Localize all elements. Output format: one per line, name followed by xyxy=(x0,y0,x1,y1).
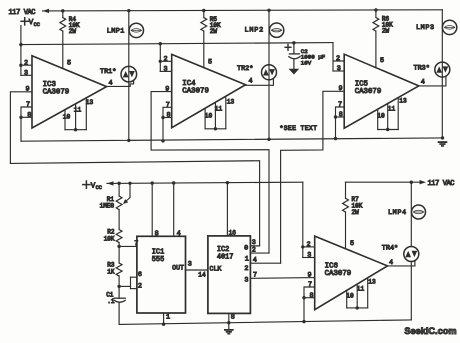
svg-text:2W: 2W xyxy=(382,28,390,35)
pin 10 IC6 xyxy=(346,293,354,300)
node IC5 pin8 xyxy=(334,115,337,118)
pin 9 IC5 xyxy=(338,85,342,93)
wire IC6 pins 7-8 xyxy=(304,287,315,322)
pin 8 IC2 xyxy=(231,313,235,321)
svg-text:13: 13 xyxy=(399,98,407,105)
svg-text:117 VAC: 117 VAC xyxy=(9,9,36,17)
resistor R5 xyxy=(201,10,207,67)
capacitor C2 xyxy=(289,43,300,75)
wire IC1 pin1 to ground rail xyxy=(163,313,165,324)
pin 5 IC3 xyxy=(67,60,71,68)
pin 8 IC1 xyxy=(155,230,159,238)
svg-text:2: 2 xyxy=(252,247,256,255)
label R2 10K xyxy=(104,229,115,243)
svg-text:CA3079: CA3079 xyxy=(355,88,382,96)
svg-text:7: 7 xyxy=(253,272,257,280)
pin 11 IC3 xyxy=(74,107,82,114)
svg-text:16: 16 xyxy=(229,229,237,236)
node IC5 pin11 strap xyxy=(386,128,389,131)
pin 11 IC5 xyxy=(388,106,396,113)
node IC4 pin2 xyxy=(159,60,162,63)
pin 2 IC5 xyxy=(336,55,340,63)
wire IC5 pins 7-8 xyxy=(336,107,345,139)
wire 117 VAC right rail xyxy=(346,181,420,183)
triac TR1 xyxy=(121,66,137,82)
wire neutral line (triac returns) xyxy=(21,138,443,141)
node Vcc rail / R1 top xyxy=(117,182,120,185)
pin 5 IC4 xyxy=(208,59,212,67)
resistor R2 xyxy=(116,230,122,247)
svg-text:117 VAC: 117 VAC xyxy=(428,180,455,188)
svg-text:2W: 2W xyxy=(352,209,360,216)
node Vcc rail / IC1 pin4 xyxy=(172,181,175,184)
node R2/R3/pin7 xyxy=(117,245,120,248)
svg-text:LMP4: LMP4 xyxy=(388,209,407,217)
svg-text:8: 8 xyxy=(166,112,170,120)
ground (below IC2) xyxy=(224,329,234,335)
label OUT xyxy=(172,265,184,272)
node Vcc rail / IC1 pin8 xyxy=(151,181,154,184)
pin 7 IC1 xyxy=(134,240,138,248)
label IC3 CA3079 xyxy=(43,81,70,97)
node IC6 pin11 strap xyxy=(356,306,359,309)
svg-text:13: 13 xyxy=(227,99,235,106)
svg-text:0: 0 xyxy=(244,244,248,252)
svg-text:5: 5 xyxy=(67,60,71,68)
pin 6 IC1 xyxy=(138,271,142,279)
pin 9 IC3 xyxy=(25,86,29,94)
svg-text:10: 10 xyxy=(346,293,354,300)
pin 4 IC2 (out2) xyxy=(253,257,257,265)
label TR4* xyxy=(382,244,398,252)
svg-text:5: 5 xyxy=(350,240,354,248)
label *SEE TEXT xyxy=(280,125,318,132)
svg-text:13: 13 xyxy=(368,279,376,286)
label LMP1 xyxy=(107,28,125,36)
pin 9 IC4 xyxy=(165,86,169,94)
wire 117 VAC top rail xyxy=(43,10,443,11)
wire +Vcc bottom rail xyxy=(107,182,303,183)
wire IC3 pins 7-8 xyxy=(21,107,32,141)
wire junction to IC1 pins 6-2 xyxy=(119,277,137,288)
power +Vcc (bottom) xyxy=(83,181,102,191)
label R7 10K 2W xyxy=(352,196,363,216)
wire Vcc rail xyxy=(21,43,333,45)
lamp LMP3 xyxy=(442,20,456,34)
svg-text:8: 8 xyxy=(27,111,31,119)
node IC4 pin11 strap xyxy=(214,127,217,130)
wire IC2 pin16 to Vcc xyxy=(226,183,228,236)
svg-text:555: 555 xyxy=(152,256,164,264)
svg-text:2W: 2W xyxy=(210,28,218,35)
node line1 / TR1 xyxy=(127,139,130,142)
svg-text:7: 7 xyxy=(308,281,312,289)
node Vcc rail / IC4 pins 2-3 xyxy=(159,42,162,45)
label TR3* xyxy=(414,65,430,73)
label R4 10K 2W xyxy=(69,16,80,35)
arrow 117 VAC (right) xyxy=(420,180,427,184)
pin 4 IC1 xyxy=(177,230,181,238)
ground (right, main return) xyxy=(438,141,448,147)
svg-text:LMP3: LMP3 xyxy=(416,24,435,32)
node line1 / TR3 and ground xyxy=(441,136,444,139)
label 1 IC2 xyxy=(245,256,249,264)
pin 7 IC2 (out3) xyxy=(253,272,257,280)
pin 11 IC4 xyxy=(215,106,223,113)
wire IC1 out to IC2 clk xyxy=(186,269,208,271)
wire 4017 out2 (pin4) xyxy=(250,262,280,264)
svg-text:LMP1: LMP1 xyxy=(107,28,125,36)
pin 2 IC3 xyxy=(24,59,28,67)
svg-text:8: 8 xyxy=(155,230,159,238)
svg-text:8: 8 xyxy=(309,292,313,300)
lamp LMP2 xyxy=(269,23,283,37)
svg-text:2: 2 xyxy=(163,55,167,63)
svg-text:6: 6 xyxy=(138,271,142,279)
svg-text:2: 2 xyxy=(138,283,142,291)
svg-text:4: 4 xyxy=(177,230,181,238)
pin 3 IC4 xyxy=(163,66,167,74)
wire IC6 pins 10-11-13 strap xyxy=(347,278,368,308)
wire +Vcc to Vcc rail xyxy=(20,26,22,45)
node R3/C1/pins 6-2 xyxy=(117,285,120,288)
svg-text:SeekIC.com: SeekIC.com xyxy=(404,326,456,336)
svg-text:13: 13 xyxy=(86,99,94,106)
label IC4 CA3079 xyxy=(182,80,209,96)
wire IC4 pins 7-8 xyxy=(163,107,172,141)
svg-text:9: 9 xyxy=(338,85,342,93)
node IC4 pins7-8 to line1 xyxy=(161,139,164,142)
pin 4 IC4 xyxy=(248,78,252,86)
svg-text:4: 4 xyxy=(248,78,252,86)
label 0 IC2 xyxy=(244,244,248,252)
svg-text:3: 3 xyxy=(163,66,167,74)
wire IC5 pin9 to 4017 out2 xyxy=(281,91,345,263)
lamp LMP4 xyxy=(412,205,426,219)
svg-text:TR1*: TR1* xyxy=(100,68,116,76)
node top rail / R6 xyxy=(374,8,377,11)
lamp LMP1 xyxy=(129,23,143,37)
op-amp IC4 (CA3079) xyxy=(172,54,246,127)
svg-text:11: 11 xyxy=(357,286,365,293)
pin 9 IC6 xyxy=(307,271,311,279)
svg-text:14: 14 xyxy=(198,272,206,279)
pin 11 IC6 xyxy=(357,286,365,293)
wire IC4 pins 10-11-13 strap xyxy=(205,96,226,129)
pin 7 IC4 xyxy=(166,101,170,109)
svg-text:10: 10 xyxy=(377,113,385,120)
wire bottom ground rail xyxy=(119,320,411,325)
node IC4 pin8 xyxy=(161,116,164,119)
wire IC4 output to TR2 gate xyxy=(246,79,274,86)
wire IC5 pins 10-11-13 strap xyxy=(378,98,399,130)
label LMP3 xyxy=(416,24,435,32)
label R6 10K 2W xyxy=(382,16,393,35)
svg-text:7: 7 xyxy=(134,240,138,248)
wire IC3 pin9 xyxy=(10,92,32,164)
pin 7 IC5 xyxy=(338,101,342,109)
svg-text:4: 4 xyxy=(421,78,425,86)
svg-text:10: 10 xyxy=(63,114,71,121)
svg-text:9: 9 xyxy=(165,86,169,94)
label C1 .1 xyxy=(106,291,115,305)
svg-text:3: 3 xyxy=(188,261,192,269)
label SeekIC.com watermark xyxy=(404,326,456,336)
node top rail / R5 xyxy=(202,9,205,12)
pin 8 IC6 xyxy=(309,292,313,300)
pin 10 IC3 xyxy=(63,114,71,121)
svg-text:TR3*: TR3* xyxy=(414,65,430,73)
svg-text:4: 4 xyxy=(253,257,257,265)
capacitor C1 xyxy=(114,286,125,324)
svg-text:CA3079: CA3079 xyxy=(182,88,209,96)
node IC3 pin11 strap xyxy=(74,128,77,131)
svg-text:CC: CC xyxy=(96,185,102,191)
resistor R3 xyxy=(116,246,122,286)
label LMP4 xyxy=(388,209,407,217)
label IC1 555 xyxy=(152,248,164,264)
op-amp IC6 (CA3079) xyxy=(315,236,388,310)
svg-text:9: 9 xyxy=(307,271,311,279)
wire 4017 out0 stub (pin3) xyxy=(250,245,259,247)
svg-text:7: 7 xyxy=(26,101,30,109)
svg-text:11: 11 xyxy=(74,107,82,114)
node Vcc rail / IC2 pin16 xyxy=(226,181,229,184)
svg-text:8: 8 xyxy=(339,111,343,119)
svg-text:3: 3 xyxy=(24,69,28,77)
power +Vcc (top left) xyxy=(21,18,40,28)
label 2 IC2 xyxy=(244,265,248,273)
node bottom rail / IC1 pin1 xyxy=(162,323,165,326)
pin 8 IC5 xyxy=(339,111,343,119)
triac TR3 xyxy=(435,62,450,77)
node top rail / LMP1 xyxy=(127,9,130,12)
svg-text:TR4*: TR4* xyxy=(382,244,398,252)
svg-text:1K: 1K xyxy=(107,268,115,275)
pin 13 IC5 xyxy=(399,98,407,105)
pin 7 IC6 xyxy=(308,281,312,289)
node top rail / R4 xyxy=(61,9,64,12)
wire LMP1-TR1 column xyxy=(128,11,130,141)
wire IC2 pin8 to ground xyxy=(228,313,230,329)
pin 2 IC6 xyxy=(307,241,311,249)
resistor R7 xyxy=(343,182,349,249)
arrow 117 VAC feed (top left) xyxy=(43,9,50,13)
svg-text:.1: .1 xyxy=(107,298,115,305)
svg-text:CA3079: CA3079 xyxy=(325,270,352,278)
wire IC3 pins 2-3 to Vcc xyxy=(21,45,32,76)
node IC6 pins7-8 to bottom rail xyxy=(302,320,305,323)
pin 5 IC5 xyxy=(380,57,384,65)
svg-text:OUT: OUT xyxy=(172,265,184,272)
label C2 1000uF 10V xyxy=(301,48,326,67)
node IC3 pin2 xyxy=(19,63,22,66)
svg-text:TR2*: TR2* xyxy=(237,65,253,73)
svg-text:CA3079: CA3079 xyxy=(43,89,70,97)
wire IC5 pins 2-3 to Vcc xyxy=(333,43,344,71)
svg-text:CLK: CLK xyxy=(210,266,222,273)
pin 13 IC4 xyxy=(227,99,235,106)
label C2 + xyxy=(285,44,291,50)
svg-text:3: 3 xyxy=(307,252,311,260)
IC IC1 555 timer xyxy=(137,236,186,313)
wire IC6 pins 2-3 xyxy=(303,247,315,258)
wire LMP3-TR3 column xyxy=(441,10,443,138)
pin 7 IC3 xyxy=(26,101,30,109)
wire IC4 pins 2-3 to Vcc xyxy=(160,43,171,71)
node Vcc rail / C2 xyxy=(292,41,295,44)
wire IC1 pin4 to Vcc xyxy=(173,183,175,236)
pin 10 IC5 xyxy=(377,113,385,120)
node IC5 pins7-8 to line1 xyxy=(334,137,337,140)
wire IC1 pin8 to Vcc xyxy=(151,183,153,236)
svg-text:2: 2 xyxy=(24,59,28,67)
op-amp IC5 (CA3079) xyxy=(344,54,419,128)
pin 13 IC6 xyxy=(368,279,376,286)
node line1 / TR2 xyxy=(267,138,270,141)
label IC5 CA3079 xyxy=(355,81,382,97)
node IC6 pin2 xyxy=(301,245,304,248)
svg-text:11: 11 xyxy=(388,106,396,113)
pin 2 IC1 xyxy=(138,283,142,291)
svg-text:2: 2 xyxy=(307,241,311,249)
pin 4 IC5 xyxy=(421,78,425,86)
label 117 VAC (top left) xyxy=(9,9,36,17)
label 3 IC2 xyxy=(244,277,248,285)
svg-text:3: 3 xyxy=(337,65,341,73)
svg-text:1: 1 xyxy=(166,313,170,321)
node IC6 pin8 xyxy=(302,296,305,299)
wire LMP4-TR4 column upper xyxy=(410,182,412,246)
label LMP2 xyxy=(245,27,265,35)
node top rail / LMP2 xyxy=(267,9,270,12)
node IC3 pin8 xyxy=(19,116,22,119)
IC IC2 4017 decade counter xyxy=(208,236,251,314)
svg-text:10V: 10V xyxy=(301,59,312,66)
pin 3 IC2 (out0) xyxy=(252,239,256,247)
svg-text:2W: 2W xyxy=(69,28,77,35)
pin 3 IC1 xyxy=(188,261,192,269)
svg-text:10: 10 xyxy=(205,113,213,120)
triac TR4 xyxy=(404,247,419,262)
wire 4017 out1 (pin2) xyxy=(250,252,269,254)
svg-text:5: 5 xyxy=(208,59,212,67)
wire 4017 out3 (pin7) to IC6 pin9 xyxy=(250,277,314,280)
svg-text:2: 2 xyxy=(336,55,340,63)
wire IC3 pins 10-11-13 strap xyxy=(65,98,86,130)
pin 4 IC6 xyxy=(389,259,393,267)
label R3 1K xyxy=(107,262,115,276)
resistor R6 xyxy=(373,10,379,68)
svg-text:8: 8 xyxy=(231,313,235,321)
svg-text:7: 7 xyxy=(338,101,342,109)
op-amp IC3 (CA3079 zero-voltage switch) xyxy=(32,56,107,128)
node bottom rail / IC2 pin8 xyxy=(227,321,230,324)
pin 3 IC3 xyxy=(24,69,28,77)
label R5 10K 2W xyxy=(210,16,221,35)
pin 13 IC3 xyxy=(86,99,94,106)
pin 5 IC6 xyxy=(350,240,354,248)
svg-text:CC: CC xyxy=(34,22,40,28)
wire LMP2-TR2 column xyxy=(268,10,270,140)
pin 8 IC4 xyxy=(166,112,170,120)
label R1 1MEG xyxy=(100,196,115,210)
triac TR2 xyxy=(262,65,277,80)
label CLK xyxy=(210,266,222,273)
wire IC5 output to TR3 gate xyxy=(419,76,446,86)
arrow +Vcc (bottom) xyxy=(107,181,114,185)
svg-text:7: 7 xyxy=(166,101,170,109)
svg-text:LMP2: LMP2 xyxy=(245,27,265,35)
svg-text:2: 2 xyxy=(244,265,248,273)
svg-text:1: 1 xyxy=(245,256,249,264)
pin 3 IC5 xyxy=(337,65,341,73)
node Vcc rail / +Vcc xyxy=(19,43,22,46)
node right rail / LMP4 xyxy=(410,181,413,184)
wire junction to IC1 pin7 xyxy=(119,245,137,247)
svg-text:10K: 10K xyxy=(104,235,115,242)
node Vcc rail / R1 wiper xyxy=(128,182,131,185)
pin 2 IC2 (out1) xyxy=(252,247,256,255)
svg-text:3: 3 xyxy=(244,277,248,285)
svg-text:5: 5 xyxy=(380,57,384,65)
pin 8 IC3 xyxy=(27,111,31,119)
label TR1* xyxy=(100,68,116,76)
pin 2 IC4 xyxy=(163,55,167,63)
svg-text:4017: 4017 xyxy=(217,254,234,262)
wire IC6 output to TR4 gate xyxy=(388,260,415,266)
potentiometer R1 1MEG xyxy=(116,183,130,229)
svg-text:*SEE TEXT: *SEE TEXT xyxy=(280,125,318,132)
wire Vcc to IC6 pins 2-3 xyxy=(302,182,304,247)
pin 3 IC6 xyxy=(307,252,311,260)
pin 1 IC1 xyxy=(166,313,170,321)
wire IC3 output to TR1 gate xyxy=(107,81,134,86)
pin 16 IC2 xyxy=(229,229,237,236)
label 117 VAC (right) xyxy=(428,180,455,188)
svg-text:3: 3 xyxy=(252,239,256,247)
svg-text:1MEG: 1MEG xyxy=(100,203,115,210)
label IC2 4017 xyxy=(217,246,234,262)
pin 4 IC3 xyxy=(108,79,112,87)
pin 10 IC4 xyxy=(205,113,213,120)
label IC6 CA3079 xyxy=(325,262,352,278)
pin 14 IC2 xyxy=(198,272,206,279)
svg-text:9: 9 xyxy=(25,86,29,94)
resistor R4 xyxy=(60,11,66,69)
wire 4017 out0 to IC3 pin9 xyxy=(10,161,259,246)
svg-text:11: 11 xyxy=(215,106,223,113)
wire IC4 pin9 to line2 xyxy=(151,92,269,254)
wire TR4 to bottom rail xyxy=(410,262,412,320)
label TR2* xyxy=(237,65,253,73)
